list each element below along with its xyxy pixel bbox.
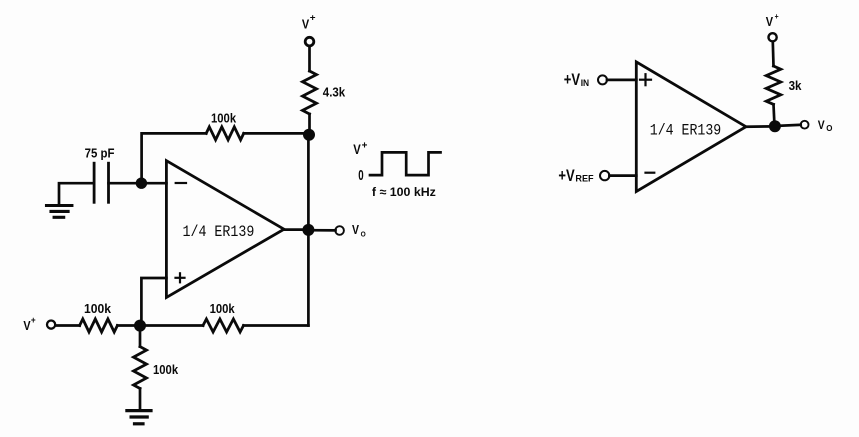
- label minus input U1: [176, 182, 186, 184]
- wire node C to R5: [139, 326, 142, 347]
- wire node C to R4: [140, 324, 203, 327]
- resistor R2 100k (feedback): [206, 127, 244, 140]
- input terminal +VREF: [600, 171, 609, 180]
- resistor R4 100k (bottom middle): [203, 319, 244, 332]
- power terminal V+ (bottom left): [47, 321, 55, 329]
- wire node B to op-amp inverting input: [141, 182, 166, 185]
- resistor R1 4.3k: [303, 71, 317, 114]
- svg-text:+: +: [310, 13, 316, 24]
- svg-text:4.3k: 4.3k: [323, 85, 346, 100]
- wire R2 to corner to node B: [142, 133, 207, 183]
- wire op-amp U1 output to node D: [284, 228, 308, 231]
- svg-text:100k: 100k: [84, 301, 112, 316]
- wire V+ to R3: [56, 324, 80, 327]
- svg-text:f ≈ 100 kHz: f ≈ 100 kHz: [372, 185, 436, 199]
- svg-text:V: V: [818, 118, 826, 132]
- svg-text:REF: REF: [575, 174, 594, 184]
- svg-text:V: V: [353, 141, 361, 157]
- op-amp U1 1/4 ER139: [166, 161, 284, 298]
- svg-text:+: +: [362, 140, 368, 151]
- node C junction: [134, 320, 146, 332]
- ground symbol (at C1): [47, 204, 72, 207]
- wire R1 to node A: [308, 114, 311, 135]
- label plus input U1: [176, 277, 185, 279]
- power terminal V+ (left circuit top): [305, 37, 314, 46]
- waveform square wave: [370, 152, 441, 175]
- node E output junction: [769, 120, 781, 132]
- resistor R6 3k: [766, 66, 781, 104]
- node A junction: [303, 129, 315, 141]
- wire +VIN to op-amp U2: [607, 79, 636, 82]
- svg-text:+V: +V: [564, 70, 581, 89]
- wire V+ to R6: [771, 42, 774, 66]
- wire node D to Vo terminal: [308, 229, 335, 232]
- wire op-amp U1 plus input to node C: [141, 278, 166, 326]
- output terminal Vo (left circuit): [335, 226, 344, 235]
- label plus input U2: [640, 79, 651, 81]
- node B junction (inverting input): [136, 178, 147, 189]
- ground symbol (at R5): [127, 409, 151, 412]
- svg-text:75 pF: 75 pF: [85, 146, 115, 161]
- wire feedback (node A to R2): [244, 132, 309, 135]
- wire +VREF to op-amp U2: [609, 174, 636, 177]
- svg-text:V: V: [766, 14, 773, 29]
- node D output junction: [302, 224, 314, 236]
- svg-text:+V: +V: [558, 166, 575, 185]
- wire right vertical (node A to bottom corner): [307, 135, 310, 326]
- wire R5 to ground: [139, 389, 142, 410]
- svg-text:100k: 100k: [210, 301, 236, 316]
- wire capacitor C1 to node B: [109, 182, 142, 185]
- wire R3 to node C: [117, 324, 140, 327]
- svg-text:O: O: [826, 124, 832, 133]
- svg-text:1/4 ER139: 1/4 ER139: [183, 223, 255, 241]
- capacitor C1 75 pF: [93, 163, 96, 202]
- output terminal Vo (right circuit): [801, 121, 809, 129]
- svg-text:+: +: [31, 315, 36, 326]
- svg-text:V: V: [302, 16, 309, 31]
- wire V+ to R1: [308, 46, 311, 71]
- svg-text:1/4 ER139: 1/4 ER139: [650, 122, 721, 140]
- wire R6 to node E: [774, 104, 775, 126]
- svg-text:V: V: [23, 318, 30, 333]
- resistor R5 100k (vertical): [134, 347, 147, 389]
- wire capacitor C1 to ground: [59, 183, 94, 204]
- wire node E to Vo terminal: [775, 125, 801, 126]
- svg-text:IN: IN: [581, 78, 589, 88]
- svg-text:0: 0: [358, 168, 363, 184]
- resistor R3 100k (bottom left): [80, 319, 118, 332]
- wire op-amp U2 output to node E: [746, 125, 775, 128]
- svg-text:V: V: [352, 222, 359, 237]
- op-amp U2 1/4 ER139: [636, 62, 746, 192]
- svg-text:+: +: [775, 12, 779, 21]
- input terminal +VIN: [598, 75, 607, 84]
- svg-text:O: O: [361, 229, 366, 238]
- label minus input U2: [646, 172, 655, 174]
- svg-text:100k: 100k: [153, 362, 179, 377]
- svg-text:3k: 3k: [789, 78, 803, 93]
- wire R4 to right corner: [244, 324, 309, 327]
- svg-text:100k: 100k: [211, 110, 237, 125]
- power terminal V+ (right circuit): [769, 33, 777, 41]
